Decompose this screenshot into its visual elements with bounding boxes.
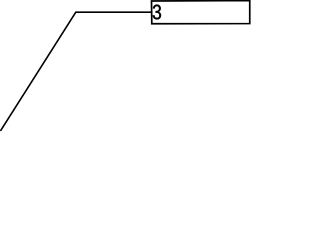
node 3 box	[152, 1, 250, 24]
wire	[0, 12, 151, 131]
node 3 label	[153, 5, 161, 20]
